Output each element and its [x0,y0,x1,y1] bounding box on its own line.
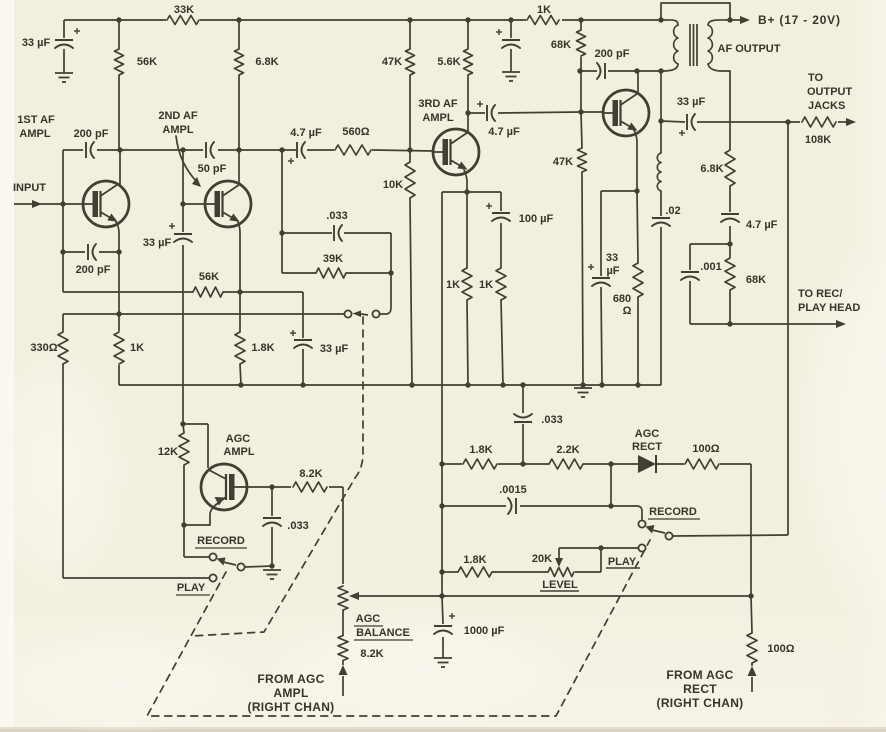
label 1K emitter [130,342,144,354]
resistor 47K (Q4 bias lower) [578,148,587,172]
switch S2 contact common [665,532,672,539]
node 200pF left [577,68,582,73]
ground (record switch) [263,570,281,579]
svg-text:1000 µF: 1000 µF [464,625,505,637]
node wiper junction [598,545,603,550]
label 12K [158,446,178,458]
svg-text:68K: 68K [551,39,571,51]
transformer T1 primary [661,20,678,71]
resistor 47K (Q3 bias) [406,49,415,75]
label 33uF output [677,96,706,108]
label 47K lower [553,156,573,168]
potentiometer AGC balance lower [338,636,348,661]
node 5.6K top [465,17,470,22]
wire balance mid [342,610,344,636]
label 100 ohm rc [767,643,794,655]
node bus 1K-b [500,382,505,387]
label AGC AMPL [223,433,254,458]
svg-text:Ω: Ω [623,305,632,317]
capacitor .033 (AGC feed) [514,414,532,422]
svg-text:33 µF: 33 µF [143,237,172,249]
capacitor 33uF (AGC coupling) [169,223,192,242]
label INPUT [13,182,46,194]
svg-text:100 µF: 100 µF [519,213,554,225]
wire 56K feedback row [63,292,303,338]
svg-text:1K: 1K [130,342,144,354]
wire 10K column [410,150,412,385]
wire feedback loop left [281,150,283,273]
wire input column [62,150,64,292]
capacitor 200pF (Q1 feedback) [88,244,96,260]
label 200pF output [595,48,630,60]
label 33uF AGC [143,237,172,249]
capacitor .0015 [508,498,516,514]
wire 56K column [118,20,120,150]
wire top supply rail [64,19,661,21]
gang dashed line upper [191,317,363,636]
wire .033 agc-amp leads [271,487,273,566]
resistor 1.8K agc [463,459,497,469]
node Q3 collector [465,110,470,115]
svg-text:6.8K: 6.8K [700,163,723,175]
arrow to rec play head [836,320,846,328]
node Q5 emitter junction [181,522,186,527]
capacitor 4.7uF (Q3-Q4 coupling) [477,101,495,121]
svg-text:.033: .033 [287,520,308,532]
wire Q1 emitter column [118,252,120,385]
wire 4.7uF out leads [729,186,731,244]
node Q4 collector [634,68,639,73]
label 200pF input [74,128,109,140]
svg-text:4.7 µF: 4.7 µF [488,126,520,138]
node bus2 100ohm [748,593,753,598]
wire Q1 collector lead [119,150,121,185]
switch S1 contact B [372,310,379,317]
wire .02 lead [660,227,662,385]
label 56K feedback [199,271,219,283]
wire agc row C [442,571,601,573]
transistor Q2 (2nd AF ampl) [205,181,251,227]
wire 4.7uF row [468,112,581,113]
wire Q2 base lead [183,203,205,205]
label 33uF Q4 [606,252,620,277]
svg-text:33 µF: 33 µF [677,96,706,108]
resistor 1K b [496,268,506,300]
node 47K top [407,17,412,22]
resistor 39K [316,268,346,278]
wire Q4 base lead [581,111,603,113]
svg-text:AGC: AGC [356,613,381,625]
wire 68K column [580,20,582,112]
svg-text:AMPL: AMPL [422,112,453,124]
svg-text:56K: 56K [137,56,157,68]
wire coupling line [63,150,434,151]
svg-text:AMPL: AMPL [273,686,308,700]
capacitor 33uF (output coupling) [679,114,695,136]
wire B+ top box [661,3,730,20]
wire agc row B [442,506,642,519]
label 330 ohm [30,342,57,354]
resistor 1K (Q1 emitter) [114,332,124,364]
svg-text:TO: TO [808,72,824,84]
label 47K [382,56,402,68]
svg-text:200 pF: 200 pF [595,48,630,60]
label 100 ohm agc [692,443,719,455]
label TO OUTPUT JACKS [807,72,853,112]
wire 680 lead [637,297,639,385]
node choke top [658,68,663,73]
label 108K [805,134,831,146]
svg-text:5.6K: 5.6K [437,56,460,68]
capacitor 100uF [486,203,510,221]
resistor 1K (top rail) [527,16,559,25]
resistor 10K [405,162,415,198]
wire rec-play head line [690,323,838,325]
resistor 1.8K (Q2 emitter) [235,332,245,364]
node bus .033 [520,382,525,387]
label FROM AGC RECT [657,668,744,710]
capacitor .033 (feedback) [334,225,342,241]
label PLAY right [606,556,640,568]
wire bypass cap leads [510,20,512,72]
svg-text:OUTPUT: OUTPUT [807,86,853,98]
svg-text:8.2K: 8.2K [360,648,383,660]
svg-text:PLAY: PLAY [177,582,206,594]
node loop top left [279,230,284,235]
label 560 ohm [342,126,369,138]
resistor 56K (feedback) [193,287,223,297]
resistor 560 ohm [335,145,371,155]
label 33K [174,4,194,16]
label 1K a [446,279,460,291]
wire Q2 base drop [182,150,184,204]
node bus 10K [409,382,414,387]
resistor 6.8K (Q2 collector load) [235,49,244,75]
label 1000uF [464,625,505,637]
svg-text:4.7 µF: 4.7 µF [746,219,778,231]
node row A left [439,461,444,466]
ground (1000uF) [434,658,452,667]
wire 33uF emitter lead [302,349,304,385]
node bus2 1000uF [439,593,444,598]
capacitor 50pF [206,142,214,158]
svg-text:AMPL: AMPL [19,128,50,140]
label RECORD left [195,535,247,548]
label 100uF [519,213,554,225]
label 33uF emitter [320,343,349,355]
svg-text:AGC: AGC [226,433,251,445]
node bus 1K-a [465,382,470,387]
potentiometer 20K level [548,568,574,577]
node 6.8K top [236,17,241,22]
node head block top [727,241,732,246]
label .001 [700,261,721,273]
svg-text:20K: 20K [532,553,552,565]
wire 8.2K feed [247,487,343,584]
wire 33uF input cap leads [63,20,65,73]
arrow input [32,200,42,208]
resistor 8.2K (AGC ampl load) [293,482,327,492]
svg-text:AMPL: AMPL [162,124,193,136]
wire 100ohm rc leads [751,596,752,666]
svg-text:1K: 1K [446,279,460,291]
svg-text:(RIGHT CHAN): (RIGHT CHAN) [248,700,335,714]
svg-text:RECORD: RECORD [197,535,245,547]
resistor 1.8K level [458,567,492,577]
label 1ST AF AMPL [17,114,55,140]
wire 33uF Q4 lead [601,287,602,385]
wire emitter branch [601,191,638,276]
label 5.6K [437,56,460,68]
capacitor 4.7uF (head coupling) [721,214,739,222]
node bypass cap top [508,17,513,22]
svg-text:1.8K: 1.8K [463,554,486,566]
wire level wiper [555,548,638,572]
svg-text:2.2K: 2.2K [556,444,579,456]
arrow from agc rect [748,666,757,692]
svg-text:33 µF: 33 µF [22,37,51,49]
wire S1 to feedback loop [380,273,391,314]
label 50pF [198,163,227,175]
label AF OUTPUT [718,43,781,55]
label 1.8K emitter [251,342,274,354]
svg-text:LEVEL: LEVEL [542,579,578,591]
svg-text:1K: 1K [479,279,493,291]
svg-text:8.2K: 8.2K [299,468,322,480]
transistor Q4 (AF output) [603,90,649,136]
svg-text:PLAY HEAD: PLAY HEAD [798,302,860,314]
wire Q1 emitter lead [116,222,119,252]
svg-text:330Ω: 330Ω [30,342,57,354]
resistor 56K (bias) [115,49,124,75]
label LEVEL [540,579,579,591]
svg-text:FROM AGC: FROM AGC [257,672,324,686]
svg-text:100Ω: 100Ω [767,643,794,655]
label FROM AGC AMPL [248,672,335,714]
svg-text:.0015: .0015 [499,484,527,496]
node row C left [439,569,444,574]
label .033 agc [541,414,562,426]
switch S3 contact play [209,574,216,581]
node transformer left [658,17,663,22]
svg-text:.02: .02 [665,205,680,217]
node head block bottom [727,321,732,326]
svg-text:AGC: AGC [635,428,660,440]
label AGC RECT [632,428,662,453]
node 1K top [116,311,121,316]
label 8.2K balance [360,648,383,660]
label 68K bias [551,39,571,51]
svg-text:47K: 47K [553,156,573,168]
wire 33uF AGC column upper [182,204,184,424]
svg-text:AMPL: AMPL [223,446,254,458]
wire lower bus [357,595,751,597]
svg-text:1.8K: 1.8K [469,444,492,456]
node Q3 base [407,147,412,152]
arrow balance wiper [349,592,359,600]
wire play line [63,577,209,579]
wire AGC base feed [183,424,208,468]
svg-text:INPUT: INPUT [13,182,46,194]
wire 12K column [183,424,209,557]
wire Q2 emitter lead [238,222,240,292]
svg-text:RECORD: RECORD [649,506,697,518]
wire 47K lower column [581,112,583,385]
node output tap [785,119,790,124]
label 39K [323,253,343,265]
ground (top left) [55,73,73,82]
resistor 680 ohm [633,263,643,297]
ground (bias divider) [574,388,592,397]
label B+ supply [758,13,841,27]
node Q2 collector top [236,147,241,152]
wire 100uF column [500,192,502,268]
node Q1 collector top [117,147,122,152]
wire B+ lead [730,19,741,21]
label 4.7uF head [746,219,778,231]
wire 1K-a column [467,192,468,385]
wire 6.8K column [238,20,240,150]
arrow to output jacks [846,118,856,126]
node 200pF lower left [60,249,65,254]
label 3RD AF AMPL [418,98,458,124]
capacitor bypass (top middle) [496,29,520,48]
label 8.2K load [299,468,322,480]
svg-text:2ND AF: 2ND AF [158,110,198,122]
transistor Q1 (1st AF ampl) [83,181,129,227]
wire Q4 collector lead [637,71,639,94]
label 1K [537,4,551,16]
wire agc block left [441,464,443,596]
callout arrow 2ND AF AMPL [176,136,201,187]
switch S3 contact record [209,553,216,560]
wire 39K row [282,272,391,274]
wire .033 loop row [282,232,391,234]
wire 68K head leads [729,244,731,324]
svg-text:.001: .001 [700,261,721,273]
wire output to record switch [787,122,789,535]
wire 200pF row [580,70,661,72]
capacitor 33uF (Q4 emitter) [588,264,610,286]
node diode anode [608,461,613,466]
wire .001 block top [690,244,730,270]
potentiometer AGC balance upper [338,586,348,610]
wire choke bottom lead [660,191,662,216]
node S3 ground junction [269,563,274,568]
capacitor 33uF (Q2 emitter bypass) [290,330,312,348]
svg-text:680: 680 [613,293,631,305]
transistor Q5 (AGC ampl) [201,464,247,510]
wire Q5 emitter lead [184,507,214,525]
svg-text:4.7 µF: 4.7 µF [290,127,322,139]
label PLAY left [176,582,210,595]
wire 47K column [409,20,411,150]
wire balance bottom lead [342,660,344,665]
resistor 33K (top rail) [167,16,199,25]
node 56K top [116,17,121,22]
transistor Q3 (3rd AF ampl) [433,129,479,175]
wire .033 agc lead [522,385,524,464]
svg-text:.033: .033 [326,210,347,222]
node Q3 emitter [464,189,469,194]
svg-text:47K: 47K [382,56,402,68]
ground (top middle) [502,72,520,81]
node .033 agc-amp top [269,484,274,489]
label 1.8K agc [469,444,492,456]
node row B diode [608,503,613,508]
svg-text:3RD AF: 3RD AF [418,98,458,110]
wire choke top lead [660,71,662,153]
wire .001 lower lead [689,281,691,324]
resistor 100 ohm rc [747,633,757,663]
node bus 680 [635,382,640,387]
svg-text:33: 33 [606,252,618,264]
switch S3 blade [217,558,237,566]
svg-text:1ST AF: 1ST AF [17,114,55,126]
svg-text:33 µF: 33 µF [320,343,349,355]
arrow from agc ampl [339,665,348,696]
wire 1.8K column [240,292,241,385]
label 4.7uF coupling [290,127,322,139]
svg-text:108K: 108K [805,134,831,146]
wire emitter node row [442,191,501,193]
wire agc row A [442,464,751,596]
svg-text:RECT: RECT [632,441,662,453]
label 20K [532,553,552,565]
transformer T1 secondary [708,20,730,71]
label .033 feedback [326,210,347,222]
svg-text:RECT: RECT [683,682,717,696]
wire Q2 collector lead [238,150,240,185]
wire diode node drop [610,464,612,506]
node Q4 emitter [634,188,639,193]
wire Q3 emitter lead [464,170,467,192]
switch S3 contact common [237,563,244,570]
label .033 agc-amp [287,520,308,532]
svg-text:68K: 68K [746,274,766,286]
node bus 1.8K [238,382,243,387]
wire 1K-b lead [501,300,503,385]
wire 1000uF lead [442,596,443,658]
label 10K [383,179,403,191]
gang dashed line lower [147,540,650,716]
wire Q4 emitter lead [634,130,637,191]
svg-text:39K: 39K [323,253,343,265]
label 68K head [746,274,766,286]
svg-text:100Ω: 100Ω [692,443,719,455]
arrow B+ [740,16,750,24]
node row B left [439,503,444,508]
svg-text:(RIGHT CHAN): (RIGHT CHAN) [657,696,744,710]
capacitor 200pF (output) [597,63,605,79]
label 4.7uF Q3 [488,126,520,138]
svg-text:6.8K: 6.8K [255,56,278,68]
node Q2 emitter feedback [237,289,242,294]
wire 200pF lower row [63,251,119,253]
wire loop right side [390,233,392,273]
svg-text:56K: 56K [199,271,219,283]
svg-text:560Ω: 560Ω [342,126,369,138]
node bus 47K [580,382,585,387]
node .033 bottom [520,461,525,466]
resistor 12K [179,433,189,465]
wire 5.6K column [467,20,469,113]
resistor 330 ohm [58,332,68,364]
svg-text:1K: 1K [537,4,551,16]
resistor 68K head [725,258,735,290]
svg-text:50 pF: 50 pF [198,163,227,175]
label 680 ohm [613,293,632,317]
